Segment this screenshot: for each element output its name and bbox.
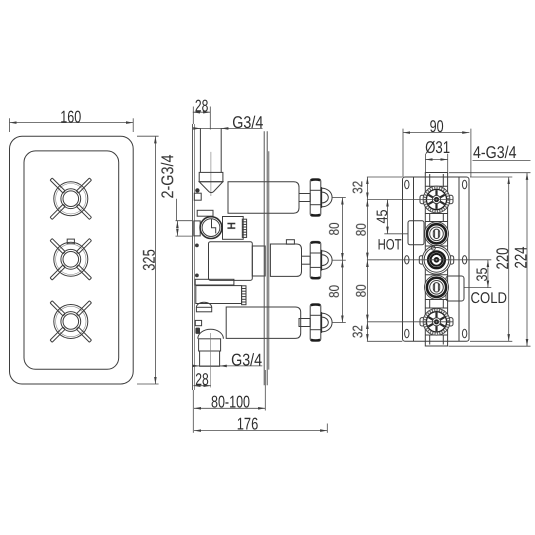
pipe bottom centre line xyxy=(210,333,212,388)
knob K1 cross handle arms xyxy=(50,178,91,219)
dimension 160 extension lines xyxy=(9,118,11,132)
valve body column xyxy=(425,173,447,347)
dimension G3/4 bottom arrows xyxy=(193,365,200,367)
cartridge flange xyxy=(197,210,213,216)
svg-text:Ø31: Ø31 xyxy=(425,138,450,157)
FRONT VIEW xyxy=(10,107,159,384)
handle stem row1 xyxy=(299,194,310,202)
thermostat cap slot xyxy=(212,219,216,234)
knob K1 outer bezel xyxy=(54,182,88,216)
dimension 224 line xyxy=(526,173,528,347)
dimension 80 left lower line xyxy=(366,260,368,322)
dimension 28 bottom line xyxy=(193,385,210,387)
svg-text:80: 80 xyxy=(326,285,342,298)
label 2-G3/4 leader line xyxy=(175,199,177,221)
column joint lines xyxy=(425,174,447,345)
fitting C3 (thermostat centre) xyxy=(422,245,451,274)
extension line 224 bottom xyxy=(449,345,531,347)
dimension 32 bottom line xyxy=(366,322,368,342)
extension line c5 left xyxy=(367,321,453,323)
thermostat cap circle xyxy=(200,217,222,239)
svg-text:4-G3/4: 4-G3/4 xyxy=(473,143,517,162)
faceplate inner face xyxy=(24,151,119,369)
cartridge body row1 xyxy=(228,182,299,213)
knob K3 boss rings xyxy=(61,312,81,332)
svg-text:80-100: 80-100 xyxy=(211,393,250,412)
fitting C5 (bottom G3/4) xyxy=(423,308,450,335)
svg-text:80: 80 xyxy=(353,223,369,236)
extension line cold leader xyxy=(465,287,492,289)
pipe top centre line xyxy=(210,152,212,196)
extension line 220 bottom xyxy=(470,340,512,342)
wall line lower stub xyxy=(192,390,194,433)
extension line 220 top xyxy=(470,176,512,178)
knob K2 outer bezel xyxy=(54,242,88,276)
union fitting top cone xyxy=(199,182,223,193)
wall line upper stub xyxy=(192,107,194,125)
faceplate outer edge xyxy=(10,136,134,384)
extension line c1 left xyxy=(367,199,453,201)
thermostat ribs xyxy=(242,219,246,237)
mounting slot top-left xyxy=(405,180,409,188)
mounting slot top-right xyxy=(462,180,466,188)
svg-text:G3/4: G3/4 xyxy=(231,351,262,370)
svg-text:80: 80 xyxy=(353,284,369,297)
svg-text:H: H xyxy=(226,222,238,230)
port C4 (cold outlet) xyxy=(425,275,449,299)
svg-text:176: 176 xyxy=(237,415,259,434)
manifold ribs xyxy=(242,286,246,305)
svg-text:HOT: HOT xyxy=(378,237,402,254)
supply pipe top xyxy=(199,128,201,172)
MIDDLE VIEW xyxy=(158,96,346,433)
label 4-G3/4 underline xyxy=(473,160,531,162)
thermostat housing box xyxy=(223,217,244,240)
dimension 80/80 lines xyxy=(341,198,343,261)
svg-text:80: 80 xyxy=(326,222,342,235)
knob K3 outer bezel xyxy=(54,305,88,339)
dimension 80 left upper line xyxy=(366,200,368,260)
cartridge body row3 xyxy=(226,307,301,338)
valve block row2 xyxy=(209,242,253,281)
knob K2 cross handle arms xyxy=(50,239,91,280)
union fitting bottom arch xyxy=(198,329,224,339)
knob K2 indicator tab xyxy=(67,239,74,244)
label 2-G3/4 arrows xyxy=(176,221,178,228)
extension line plate top left xyxy=(367,176,402,178)
svg-text:160: 160 xyxy=(60,107,81,126)
svg-text:90: 90 xyxy=(430,117,444,136)
BACK VIEW xyxy=(349,117,530,346)
svg-text:224: 224 xyxy=(512,247,531,269)
dimension 28 top line xyxy=(193,111,211,113)
manifold block xyxy=(196,286,242,304)
svg-text:COLD: COLD xyxy=(471,290,508,307)
handle dome xyxy=(322,188,332,207)
manifold bar xyxy=(195,279,234,285)
dimension 176 extension line xyxy=(326,424,328,433)
wall mounting surface xyxy=(192,124,194,390)
dimension G3/4 top arrows xyxy=(194,127,200,129)
handle stem row2 xyxy=(302,256,311,264)
fitting C1 (top G3/4) xyxy=(423,186,450,213)
handle sleeve row2 xyxy=(270,244,301,276)
svg-text:35: 35 xyxy=(474,268,491,282)
pipe clamp bottom xyxy=(195,320,201,325)
extension line 224 top xyxy=(449,172,531,174)
svg-text:32: 32 xyxy=(349,181,365,194)
valve block row2 mid section xyxy=(252,246,265,276)
port C2 (hot outlet) xyxy=(425,222,449,246)
outlet elbow cover arch xyxy=(196,302,211,307)
dimension 80-100 line xyxy=(194,407,265,409)
svg-text:2-G3/4: 2-G3/4 xyxy=(158,155,177,199)
trim plate edge-on xyxy=(263,131,265,385)
svg-text:G3/4: G3/4 xyxy=(232,113,263,132)
handle cross xyxy=(310,179,332,217)
handle cross xyxy=(310,241,332,279)
pipe clamp top xyxy=(194,193,201,200)
extension line plate bottom left xyxy=(367,340,402,342)
hot inlet box xyxy=(408,221,424,245)
dimension 80-100 extension line xyxy=(264,370,266,411)
dimension 28 top extension line xyxy=(209,107,211,130)
dimension 35 line xyxy=(487,260,489,288)
svg-text:325: 325 xyxy=(140,249,159,271)
cold inlet box xyxy=(446,276,464,301)
handle dome xyxy=(322,313,332,332)
dimension 220 line xyxy=(508,177,510,341)
svg-text:28: 28 xyxy=(195,96,209,115)
knob K3 cross handle arms xyxy=(50,301,91,342)
wall screw B xyxy=(195,274,199,278)
extension line hot leader xyxy=(384,233,408,235)
mounting slot mid-left xyxy=(405,256,409,264)
dimension diameter 31 extension lines xyxy=(424,154,426,174)
dimension 45 line xyxy=(387,200,389,234)
dimension 325 line xyxy=(154,136,156,384)
mounting slot mid-right xyxy=(462,256,466,264)
dimension 80/80 extension lines xyxy=(332,197,346,199)
svg-text:28: 28 xyxy=(195,370,209,389)
inlet stub xyxy=(194,221,200,236)
label 2-G3/4 tick lines xyxy=(176,220,193,222)
handle dome xyxy=(322,251,332,270)
fitting C5 ears xyxy=(420,318,425,326)
knob K2 boss rings xyxy=(61,249,81,269)
svg-text:32: 32 xyxy=(349,325,365,338)
pipe clamp bottom screw xyxy=(195,328,200,334)
dimension 176 line xyxy=(194,430,327,432)
supply pipe bottom xyxy=(200,351,220,366)
mounting slot bottom-right xyxy=(462,329,466,337)
svg-text:45: 45 xyxy=(374,210,391,224)
svg-text:220: 220 xyxy=(493,248,512,270)
handle stem row3 xyxy=(299,319,310,327)
fitting C3 ears xyxy=(419,256,424,264)
dimension 90 line xyxy=(403,132,469,134)
union fitting top body xyxy=(199,172,223,181)
handle cross xyxy=(310,304,332,342)
dimension 90 extension lines xyxy=(402,129,404,177)
bracket bend line right xyxy=(458,177,460,341)
dimension 160 line xyxy=(10,122,134,124)
wall screw A xyxy=(195,244,199,248)
sleeve tab row2 xyxy=(286,240,294,245)
mounting bracket plate xyxy=(403,177,470,341)
union fitting bottom body xyxy=(199,339,221,351)
dimension G3/4 top line xyxy=(197,127,263,129)
dimension G3/4 bottom line xyxy=(200,365,263,367)
dimension diameter 31 line xyxy=(425,159,447,161)
bracket bend line left xyxy=(413,177,415,341)
pipe clamp top screw xyxy=(195,188,199,192)
mounting slot bottom-left xyxy=(405,329,409,337)
dimension 32 top line xyxy=(366,177,368,200)
knob K1 boss rings xyxy=(61,189,81,209)
fitting C1 ears xyxy=(420,195,425,203)
extension line c3 horizontal xyxy=(367,259,491,261)
dimension 325 extension lines xyxy=(137,135,159,137)
